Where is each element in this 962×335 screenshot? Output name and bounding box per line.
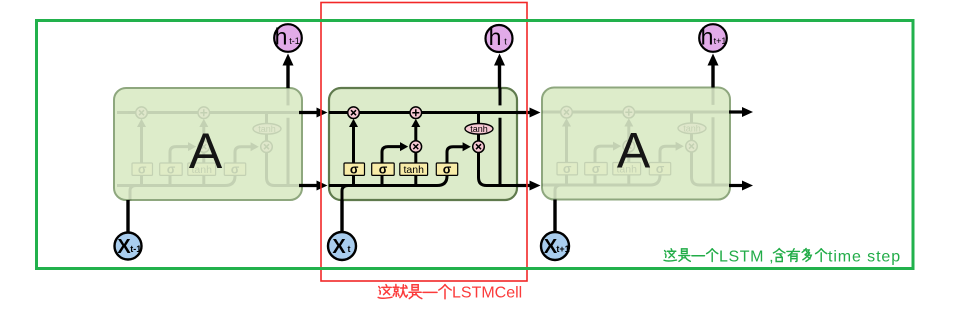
wire A3 out upper C xyxy=(729,110,742,113)
svg-text:t-1: t-1 xyxy=(289,36,300,46)
red caption: zhe jiu shi yi ge LSTMCell xyxy=(378,284,522,301)
node h_t+1 circle xyxy=(699,24,727,52)
node h_t-1 circle xyxy=(274,24,302,52)
svg-text:LSTMCell: LSTMCell xyxy=(452,285,522,302)
glyph zhe xyxy=(378,285,392,299)
wire up to h_t-1 xyxy=(286,63,289,88)
arrowhead A1 to LSTM upper xyxy=(317,108,328,118)
cell LSTM middle body xyxy=(329,88,517,200)
glyph jiu xyxy=(393,284,407,297)
arrowhead A3 out upper xyxy=(742,107,753,117)
cell A3 faded internals xyxy=(542,88,730,201)
node X_t circle xyxy=(328,232,356,260)
cell LSTM middle internals xyxy=(329,88,517,201)
glyph ge xyxy=(439,285,451,299)
glyph you xyxy=(787,249,800,262)
svg-text:t: t xyxy=(348,244,351,254)
glyph ge3 xyxy=(816,249,827,262)
green outer border box xyxy=(37,21,914,269)
wire up to h_t+1 xyxy=(711,63,714,88)
wire X_t+1 input xyxy=(553,200,556,233)
node X_t-1 circle xyxy=(115,233,142,260)
glyph han xyxy=(773,249,785,262)
arrowhead to h_t-1 xyxy=(283,54,294,66)
glyph duo xyxy=(802,249,811,262)
green caption: zhe shi yi ge LSTM, han you duo ge time step xyxy=(664,249,901,266)
arrowhead to h_t+1 xyxy=(708,54,719,66)
wire LSTM to A3 lower h xyxy=(516,184,530,187)
cell A3 body (right, faded) xyxy=(542,88,730,200)
wire X_t input xyxy=(340,200,343,232)
svg-text:h: h xyxy=(275,24,288,50)
node h_t circle xyxy=(486,24,513,52)
svg-text:t+1: t+1 xyxy=(714,36,727,46)
svg-text:A: A xyxy=(617,123,651,179)
svg-text:time step: time step xyxy=(828,249,901,266)
node X_t+1 circle xyxy=(541,232,570,260)
glyph shi2 xyxy=(679,249,691,261)
svg-text:A: A xyxy=(189,123,223,179)
wire A1 to LSTM upper C xyxy=(299,111,317,114)
cell A1 faded internals xyxy=(117,88,305,201)
arrowhead to h_t xyxy=(494,54,505,66)
arrowhead LSTM to A3 lower xyxy=(530,181,541,191)
svg-text:h: h xyxy=(701,24,714,50)
arrowhead A3 out lower xyxy=(742,181,753,191)
wire up to h_t xyxy=(498,63,501,88)
red LSTMCell highlight box xyxy=(321,3,527,282)
svg-text:LSTM ,: LSTM , xyxy=(719,249,774,266)
wire A3 out lower h xyxy=(729,184,742,187)
svg-text:X: X xyxy=(332,236,346,258)
svg-text:h: h xyxy=(489,24,502,50)
arrowhead A1 to LSTM lower xyxy=(317,181,328,191)
glyph yi xyxy=(423,291,437,293)
glyph ge2 xyxy=(707,249,718,262)
svg-text:X: X xyxy=(117,236,131,258)
wire A1 to LSTM lower h xyxy=(299,184,317,187)
cell A1 body (left, faded) xyxy=(114,88,302,200)
arrowhead LSTM to A3 upper xyxy=(530,108,541,118)
wire LSTM to A3 upper C xyxy=(516,111,530,114)
glyph zhe2 xyxy=(664,249,676,261)
wire X_t-1 input xyxy=(126,200,129,233)
svg-text:t+1: t+1 xyxy=(556,244,569,254)
glyph yi2 xyxy=(692,255,705,257)
svg-text:t-1: t-1 xyxy=(130,244,141,254)
glyph shi xyxy=(409,285,422,299)
